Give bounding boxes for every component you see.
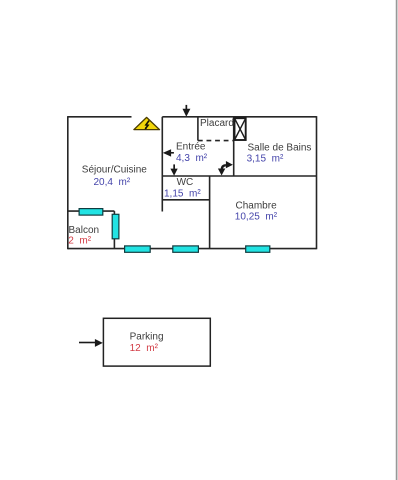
svg-text:Séjour/Cuisine: Séjour/Cuisine [82,165,147,176]
svg-text:Parking: Parking [130,332,164,343]
svg-text:WC: WC [177,177,194,188]
lightning bolt [145,121,149,129]
wall: Balcon right [113,211,115,249]
warning triangle electrical [134,117,160,129]
svg-text:20,4 m²: 20,4 m² [94,177,131,188]
window W2 Balcon right vertical [112,214,119,239]
arrow A2: Entree to Sejour (left) [163,149,174,156]
arrow A3: Entree to WC (down) [170,164,177,175]
svg-text:4,3 m²: 4,3 m² [176,153,208,164]
svg-text:Entrée: Entrée [176,142,206,153]
wall D: Chambre left vertical [209,176,211,249]
wall A: Sejour/Entree vertical [161,117,163,212]
window W3 bottom wall left [125,246,151,252]
svg-text:1,15 m²: 1,15 m² [164,189,201,200]
wall: left exterior [67,116,69,249]
window W1 Balcon top horizontal [79,209,103,216]
arrow A5: parking entrance (right) [79,339,103,347]
svg-text:3,15 m²: 3,15 m² [247,154,284,165]
wall B: horizontal Entree/SdB over WC/Chambre [162,175,316,177]
wall C: Entree/Salle de Bains vertical [233,117,235,176]
svg-text:Placard: Placard [200,118,234,129]
wall: Placard bottom dashed [198,140,234,142]
svg-text:12 m²: 12 m² [130,343,159,354]
svg-text:2 m²: 2 m² [68,236,91,247]
wall: WC bottom [162,199,209,201]
window W4 bottom wall middle [173,246,199,252]
wall: right exterior [316,116,318,249]
wall: top left segment [68,116,132,118]
svg-text:10,25 m²: 10,25 m² [235,212,278,223]
window W5 bottom wall right (Chambre) [246,246,270,252]
arrow A1: main entrance (down, top) [183,105,191,117]
wall: Placard left [197,117,199,141]
svg-text:Balcon: Balcon [69,225,100,236]
wall: Balcon top [68,210,115,212]
wall: bottom exterior [68,248,317,250]
page right edge grey line [396,0,398,480]
arrow A4: double door arrow Chambre/SdB with arc [218,161,233,176]
svg-text:Salle de Bains: Salle de Bains [248,143,312,154]
wall: top right segment [162,116,316,118]
duct X-box [235,118,246,140]
svg-text:Chambre: Chambre [236,200,278,211]
parking rectangle [103,318,210,366]
